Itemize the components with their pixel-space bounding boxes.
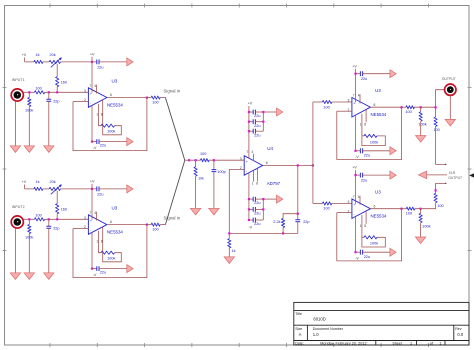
resistor 160 (input stage 2) bbox=[56, 204, 59, 214]
svg-text:-V: -V bbox=[355, 155, 359, 159]
resistor 100k balance (input stage 1) bbox=[101, 124, 115, 127]
op-amp U3 NE5534 bbox=[352, 199, 371, 219]
svg-text:22u: 22u bbox=[97, 192, 103, 196]
capacitor 22u +V row 2 U4 bbox=[249, 121, 253, 123]
wire diagonal from stage 1 to summing node bbox=[165, 98, 184, 161]
node xlr cold branch bbox=[435, 189, 437, 191]
ground 22p (input stage 1) bbox=[44, 146, 54, 153]
ground jack shield (input stage 2) bbox=[10, 273, 20, 280]
wire feedback bottom rail bbox=[229, 232, 297, 234]
pin end XLR hot bbox=[445, 164, 446, 165]
node -V right rail junctions U4 bbox=[262, 198, 264, 200]
wire pin 2 feedback (input stage 2) bbox=[73, 228, 88, 230]
svg-text:XLR: XLR bbox=[449, 171, 456, 175]
svg-text:U3: U3 bbox=[112, 205, 118, 210]
op-amp U3 NE5534 bbox=[352, 98, 371, 118]
off-page connector arrow bbox=[469, 173, 474, 177]
balance pin stubs (input stage 1) bbox=[98, 104, 100, 113]
svg-text:6: 6 bbox=[110, 220, 112, 224]
wire cap to arrow bottom (output stage 1) bbox=[356, 150, 361, 152]
svg-text:6010D: 6010D bbox=[313, 317, 325, 322]
svg-text:7: 7 bbox=[89, 84, 91, 88]
wire +V to R 1k (input stage 2) bbox=[25, 188, 34, 190]
resistor 100k balance (output stage 2) bbox=[364, 236, 377, 239]
capacitor 22u bottom (output stage 2) bbox=[360, 250, 362, 255]
svg-text:22u: 22u bbox=[254, 222, 260, 226]
svg-text:+V: +V bbox=[22, 180, 27, 184]
node 10k tap bbox=[195, 159, 197, 161]
node feedback RC top bbox=[297, 213, 299, 215]
wire +V right rail U4 bbox=[262, 112, 264, 131]
wire 160 to input node (input stage 2) bbox=[56, 214, 58, 220]
svg-text:22u: 22u bbox=[364, 255, 370, 259]
wire jack to 100k node (input stage 1) bbox=[23, 91, 35, 93]
wire op-amp output (output stage 2) bbox=[370, 208, 401, 210]
pin 7 wire to +V (input stage 1) bbox=[91, 62, 93, 93]
node jack branch bbox=[435, 106, 437, 108]
svg-text:22u: 22u bbox=[100, 271, 106, 275]
svg-text:Document Number: Document Number bbox=[313, 327, 344, 331]
node output junction (output stage 2) bbox=[400, 208, 402, 210]
node +V cap row 2 U4 bbox=[248, 121, 250, 123]
power port arrow top (output stage 1) bbox=[390, 70, 396, 78]
wire op-amp output (output stage 1) bbox=[370, 106, 401, 108]
wire summing node row bbox=[185, 159, 201, 161]
resistor 100 xlr series top bbox=[435, 107, 437, 117]
wire feedback loop (input stage 2) bbox=[73, 225, 147, 278]
power port arrow bottom (output stage 1) bbox=[390, 147, 396, 155]
svg-text:3: 3 bbox=[84, 216, 86, 220]
resistor 100k load bottom bbox=[420, 209, 422, 214]
wire output to diagonal (input stage 2) bbox=[160, 224, 165, 226]
port XLR OUTPUT arrow bbox=[418, 171, 426, 179]
svg-text:100: 100 bbox=[406, 211, 412, 215]
resistor 100 input (output stage 1) bbox=[322, 100, 332, 103]
wire 100 to op-amp pin 3 (input stage 2) bbox=[45, 218, 89, 220]
svg-text:10k: 10k bbox=[198, 176, 204, 180]
svg-text:4: 4 bbox=[94, 211, 96, 215]
balance pin stubs (output stage 1) bbox=[361, 114, 363, 123]
capacitor 22u supply decoupling bottom (input stage 2) bbox=[97, 266, 99, 271]
balance pin stubs (input stage 2) bbox=[98, 231, 100, 240]
resistor 100k load top bbox=[420, 107, 422, 112]
wire cap to power arrow (input stage 1) bbox=[99, 61, 127, 63]
node B junction bbox=[420, 208, 422, 210]
wire cap to power arrow bottom (input stage 2) bbox=[99, 268, 127, 270]
node RC bottom bbox=[282, 232, 284, 234]
wire 100p to ground bbox=[213, 172, 215, 209]
svg-text:100: 100 bbox=[152, 100, 158, 104]
pin stub top (input stage 2) bbox=[96, 212, 98, 221]
svg-text:1k: 1k bbox=[232, 249, 236, 253]
svg-text:+V: +V bbox=[352, 64, 357, 68]
svg-text:3: 3 bbox=[240, 157, 242, 161]
wire xlr resistor to node B bbox=[415, 203, 436, 209]
svg-text:20k: 20k bbox=[50, 180, 56, 184]
svg-text:Size: Size bbox=[295, 327, 302, 331]
svg-text:Signal In: Signal In bbox=[164, 88, 181, 93]
svg-text:22u: 22u bbox=[254, 133, 260, 137]
wire 1k to pot (input stage 1) bbox=[43, 61, 49, 63]
node A junction bbox=[420, 106, 422, 108]
svg-text:100: 100 bbox=[437, 204, 443, 208]
svg-text:100: 100 bbox=[323, 207, 329, 211]
power port arrow top (input stage 2) bbox=[127, 185, 133, 193]
capacitor 22u +V row 3 U4 bbox=[249, 130, 253, 132]
node gain resistor junction bbox=[228, 232, 230, 234]
node U4 output to bus bbox=[312, 164, 314, 166]
resistor 100 output bottom bbox=[402, 208, 407, 210]
node U4 feedback tap bbox=[297, 164, 299, 166]
svg-text:100: 100 bbox=[35, 213, 41, 217]
node 22p junction (input stage 1) bbox=[48, 91, 50, 93]
ground jack shield (input stage 1) bbox=[10, 146, 20, 153]
resistor 100k input termination (input stage 1) bbox=[28, 92, 30, 97]
pin end XLR cold bbox=[445, 183, 446, 184]
svg-text:100: 100 bbox=[323, 105, 329, 109]
node V+ junction (input stage 2) bbox=[91, 188, 93, 190]
wire diagonal from stage 2 to summing node bbox=[165, 160, 184, 224]
svg-text:U3: U3 bbox=[112, 78, 118, 83]
wire pot wiper down (input stage 1) bbox=[56, 64, 58, 77]
svg-text:3: 3 bbox=[348, 200, 350, 204]
pin stub top (input stage 1) bbox=[96, 85, 98, 94]
svg-text:4: 4 bbox=[252, 150, 254, 154]
resistor 1k (input stage 2) bbox=[34, 187, 43, 190]
wire pot to +V junction (input stage 2) bbox=[61, 188, 97, 190]
op-amp U3 NE5534 bbox=[88, 88, 107, 108]
power port arrow top (output stage 2) bbox=[390, 171, 396, 179]
capacitor 22p (input stage 2) bbox=[48, 219, 50, 226]
svg-text:100k: 100k bbox=[370, 140, 378, 144]
svg-text:22u: 22u bbox=[100, 144, 106, 148]
pin stub top (output stage 2) bbox=[359, 196, 361, 205]
svg-text:100k: 100k bbox=[418, 122, 426, 126]
pin 4 wire (output stage 2) bbox=[355, 217, 357, 253]
capacitor 22u +V row 1 U4 bbox=[249, 111, 253, 113]
svg-text:100: 100 bbox=[433, 128, 439, 132]
svg-text:-V: -V bbox=[93, 146, 97, 150]
svg-text:+: + bbox=[90, 92, 92, 96]
node jack-output junction (input stage 1) bbox=[28, 91, 30, 93]
wire 22p to ground (input stage 1) bbox=[48, 101, 50, 145]
power port arrow +V U4 bbox=[277, 108, 283, 116]
svg-text:7: 7 bbox=[353, 195, 355, 199]
svg-text:22u: 22u bbox=[254, 212, 260, 216]
wire 100 to U4 pin 3 bbox=[209, 159, 244, 161]
ground 1k bbox=[224, 257, 234, 264]
svg-text:NE5534: NE5534 bbox=[371, 112, 387, 117]
svg-text:22p: 22p bbox=[303, 220, 309, 224]
capacitor 22u supply decoupling top (input stage 2) bbox=[97, 187, 99, 192]
svg-text:8: 8 bbox=[256, 182, 258, 186]
svg-text:22p: 22p bbox=[53, 99, 59, 103]
svg-text:Title: Title bbox=[295, 312, 302, 316]
wire 22p to ground (input stage 2) bbox=[48, 228, 50, 272]
wire cap to power arrow bottom (input stage 1) bbox=[99, 141, 127, 143]
svg-text:100k: 100k bbox=[107, 130, 115, 134]
wire feedback loop (output stage 1) bbox=[337, 107, 402, 159]
wire feedback to U4 pin 2 bbox=[229, 169, 244, 233]
wire 2.2k to bottom rail bbox=[282, 228, 284, 234]
svg-text:22u: 22u bbox=[364, 154, 370, 158]
ground 22p (input stage 2) bbox=[44, 273, 54, 280]
capacitor 22u -V row 2 U4 bbox=[249, 208, 253, 210]
node summing junction bbox=[188, 159, 190, 161]
wire cap to arrow top (output stage 1) bbox=[356, 73, 361, 75]
resistor 100k balance (output stage 1) bbox=[364, 134, 377, 137]
title block frame bbox=[294, 302, 469, 345]
svg-text:A: A bbox=[299, 332, 302, 337]
wire RC top rail bbox=[283, 214, 298, 219]
power port arrow top (input stage 1) bbox=[127, 58, 133, 66]
resistor 160 (input stage 1) bbox=[56, 77, 59, 87]
wire to pin 3 (output stage 1) bbox=[332, 101, 352, 103]
svg-text:+: + bbox=[90, 219, 92, 223]
svg-text:20k: 20k bbox=[50, 53, 56, 57]
svg-text:NE5534: NE5534 bbox=[107, 229, 123, 234]
wire pin 2 feedback (input stage 1) bbox=[73, 101, 88, 103]
svg-text:Rev: Rev bbox=[455, 327, 462, 331]
wire cap to arrow bottom (output stage 2) bbox=[356, 251, 361, 253]
node +V right rail junctions U4 bbox=[262, 111, 264, 113]
ground 100k (input stage 1) bbox=[24, 146, 34, 153]
pin 7 wire (output stage 2) bbox=[355, 175, 357, 204]
svg-text:+V: +V bbox=[90, 52, 95, 56]
wire -V rail (input stage 2) bbox=[92, 268, 97, 270]
wire -V row to arrow U4 bbox=[263, 198, 276, 200]
wire 10k to ground bbox=[195, 176, 197, 208]
wire balance loop (output stage 1) bbox=[362, 122, 364, 136]
svg-text:0.0: 0.0 bbox=[457, 332, 463, 337]
pin 4 wire to -V (input stage 1) bbox=[91, 106, 93, 142]
node 160 junction (input stage 2) bbox=[56, 218, 58, 220]
resistor 100 series input (input stage 1) bbox=[34, 91, 44, 94]
wire jack to 100k node (input stage 2) bbox=[23, 218, 35, 220]
pin stub top (output stage 1) bbox=[359, 94, 361, 103]
svg-text:22p: 22p bbox=[53, 226, 59, 230]
svg-text:Date:: Date: bbox=[295, 342, 304, 346]
svg-text:+V: +V bbox=[22, 53, 27, 57]
wire U4 feedback down bbox=[297, 165, 299, 213]
node V+ junction (input stage 1) bbox=[91, 61, 93, 63]
node output junction (output stage 1) bbox=[400, 106, 402, 108]
svg-text:7: 7 bbox=[353, 94, 355, 98]
svg-text:100k: 100k bbox=[422, 225, 430, 229]
node 160 junction (input stage 1) bbox=[56, 91, 58, 93]
svg-text:3: 3 bbox=[84, 89, 86, 93]
wire 100k to ground bottom bbox=[420, 223, 422, 237]
wire 100k to ground top bbox=[420, 121, 422, 135]
node -V junction (output stage 2) bbox=[354, 251, 356, 253]
svg-text:+V: +V bbox=[90, 179, 95, 183]
svg-text:22u: 22u bbox=[254, 124, 260, 128]
wire balance loop (input stage 2) bbox=[99, 240, 102, 253]
power port arrow bottom (input stage 1) bbox=[127, 138, 133, 146]
resistor 100 output (input stage 2) bbox=[147, 224, 151, 226]
capacitor 22u supply decoupling bottom (input stage 1) bbox=[97, 139, 99, 144]
border zone tick marks bbox=[49, 4, 51, 8]
wire bus to output stages bbox=[312, 102, 314, 203]
ground 100p bbox=[209, 208, 219, 215]
svg-text:+V: +V bbox=[248, 102, 253, 106]
node -V junction (input stage 2) bbox=[91, 268, 93, 270]
capacitor 22u top (output stage 1) bbox=[360, 71, 362, 76]
wire balance loop (output stage 2) bbox=[362, 224, 364, 238]
capacitor 22p feedback bbox=[297, 214, 299, 220]
svg-text:U4: U4 bbox=[267, 146, 273, 151]
resistor 100 input (output stage 2) bbox=[322, 202, 332, 205]
node 22p junction (input stage 2) bbox=[48, 218, 50, 220]
capacitor 22u supply decoupling top (input stage 1) bbox=[97, 60, 99, 65]
svg-text:4: 4 bbox=[358, 94, 360, 98]
wire jack ground bbox=[449, 95, 451, 119]
resistor 100k balance (input stage 2) bbox=[101, 251, 115, 254]
pin 7 wire to +V (input stage 2) bbox=[91, 189, 93, 220]
resistor 1k (input stage 1) bbox=[34, 60, 43, 63]
pin stub top U4 bbox=[252, 154, 254, 161]
wire -V left rail U4 bbox=[248, 173, 250, 220]
node output junction (input stage 1) bbox=[146, 97, 148, 99]
resistor 100 summing bbox=[201, 159, 210, 162]
resistor 10k to ground bbox=[195, 160, 197, 167]
svg-text:22u: 22u bbox=[361, 77, 367, 81]
pin 4 wire to -V (input stage 2) bbox=[91, 233, 93, 269]
ground 100k (input stage 2) bbox=[24, 273, 34, 280]
svg-text:22u: 22u bbox=[254, 201, 260, 205]
svg-text:100k: 100k bbox=[107, 257, 115, 261]
svg-text:1.0: 1.0 bbox=[313, 332, 319, 337]
svg-text:1: 1 bbox=[410, 342, 412, 346]
svg-text:1k: 1k bbox=[36, 53, 40, 57]
node output junction (input stage 2) bbox=[146, 224, 148, 226]
wire 1k to ground bbox=[228, 248, 230, 257]
node +V junction (output stage 2) bbox=[354, 174, 356, 176]
svg-text:8: 8 bbox=[364, 224, 366, 228]
svg-text:6: 6 bbox=[110, 93, 112, 97]
ground output jack bbox=[445, 119, 455, 126]
wire -V rail (input stage 1) bbox=[92, 141, 97, 143]
wire bus top corner bbox=[313, 101, 323, 103]
svg-text:6: 6 bbox=[374, 204, 376, 208]
svg-text:-V: -V bbox=[93, 273, 97, 277]
capacitor 22u -V row 3 U4 bbox=[249, 219, 253, 221]
wire feedback loop (input stage 1) bbox=[73, 98, 147, 151]
potentiometer 20k (input stage 1) bbox=[49, 60, 60, 63]
wire to node A bbox=[414, 106, 435, 108]
wire jack shield down (input stage 2) bbox=[14, 228, 16, 272]
pin stubs bottom U4 bbox=[252, 171, 254, 182]
svg-text:100: 100 bbox=[405, 110, 411, 114]
balance pin stubs (output stage 2) bbox=[361, 215, 363, 224]
wire 22p to bottom rail bbox=[297, 222, 299, 233]
svg-text:2.2k: 2.2k bbox=[273, 220, 280, 224]
wire 100 to op-amp pin 3 (input stage 1) bbox=[45, 91, 89, 93]
ground 100k bottom bbox=[415, 237, 425, 244]
resistor 100k input termination (input stage 2) bbox=[28, 219, 30, 224]
svg-text:4: 4 bbox=[358, 195, 360, 199]
wire balance loop (input stage 1) bbox=[99, 113, 102, 126]
node +V cap row 1 U4 bbox=[248, 111, 250, 113]
wire op-amp output (input stage 1) bbox=[107, 97, 147, 99]
wire 100k to ground (input stage 1) bbox=[28, 107, 30, 146]
capacitor 100p bbox=[213, 160, 215, 169]
svg-text:7: 7 bbox=[89, 211, 91, 215]
capacitor 22u -V row 1 U4 bbox=[249, 198, 253, 200]
svg-text:160: 160 bbox=[61, 208, 67, 212]
svg-text:100: 100 bbox=[152, 227, 158, 231]
node +V junction (output stage 1) bbox=[354, 73, 356, 75]
svg-text:OUTPUT: OUTPUT bbox=[448, 176, 462, 180]
capacitor 22u bottom (output stage 1) bbox=[360, 148, 362, 153]
svg-text:+: + bbox=[246, 160, 248, 164]
svg-text:+V: +V bbox=[352, 166, 357, 170]
wire cap to power arrow (input stage 2) bbox=[99, 188, 127, 190]
power port arrow bottom (output stage 2) bbox=[390, 248, 396, 256]
svg-text:6: 6 bbox=[266, 161, 268, 165]
node 100p tap bbox=[213, 159, 215, 161]
node -V cap row 3 U4 bbox=[248, 219, 250, 221]
potentiometer 20k (input stage 2) bbox=[49, 187, 60, 190]
svg-text:INPUT2: INPUT2 bbox=[12, 205, 25, 209]
wire jack shield down (input stage 1) bbox=[14, 101, 16, 146]
svg-text:22u: 22u bbox=[361, 179, 367, 183]
wire pin 2 (output stage 1) bbox=[337, 110, 352, 112]
node -V cap row 2 U4 bbox=[248, 208, 250, 210]
wire 160 to input node (input stage 1) bbox=[56, 87, 58, 93]
resistor 100 xlr series bottom bbox=[435, 190, 437, 193]
svg-text:100p: 100p bbox=[217, 170, 225, 174]
pin 4 wire (output stage 1) bbox=[355, 115, 357, 151]
wire cap to arrow top (output stage 2) bbox=[356, 174, 361, 176]
node -V junction (input stage 1) bbox=[91, 141, 93, 143]
capacitor 22p (input stage 1) bbox=[48, 92, 50, 99]
svg-text:3: 3 bbox=[348, 99, 350, 103]
wire 100k to ground (input stage 2) bbox=[28, 234, 30, 273]
wire pot to +V junction (input stage 1) bbox=[61, 61, 97, 63]
svg-text:NE5534: NE5534 bbox=[107, 102, 123, 107]
svg-text:100: 100 bbox=[200, 152, 206, 156]
wire feedback loop (output stage 2) bbox=[337, 209, 402, 261]
capacitor 22u top (output stage 2) bbox=[360, 173, 362, 178]
resistor 100 output top bbox=[402, 106, 406, 108]
wire XLR port line bbox=[427, 174, 447, 176]
power port arrow -V U4 bbox=[277, 195, 283, 203]
svg-text:1: 1 bbox=[252, 182, 254, 186]
svg-text:100k: 100k bbox=[370, 242, 378, 246]
svg-text:AD797: AD797 bbox=[267, 181, 281, 186]
svg-text:8: 8 bbox=[364, 123, 366, 127]
wire +V to R 1k (input stage 1) bbox=[25, 61, 34, 63]
wire pin 2 (output stage 2) bbox=[337, 212, 352, 214]
svg-text:NE5534: NE5534 bbox=[371, 214, 387, 219]
op-amp U4 AD797 bbox=[244, 156, 263, 176]
op-amp U3 NE5534 bbox=[88, 215, 107, 235]
wire pot wiper down (input stage 2) bbox=[56, 191, 58, 204]
resistor 2.2k feedback bbox=[282, 219, 285, 228]
svg-text:8: 8 bbox=[101, 240, 103, 244]
node -V junction (output stage 1) bbox=[354, 150, 356, 152]
node -V cap row 1 U4 bbox=[248, 198, 250, 200]
svg-text:7: 7 bbox=[247, 150, 249, 154]
connector J1 input jack bbox=[11, 89, 23, 101]
wire to pin 3 (output stage 2) bbox=[332, 202, 352, 204]
svg-text:-V: -V bbox=[355, 256, 359, 260]
wire up to output jack bbox=[436, 90, 445, 108]
svg-text:U3: U3 bbox=[375, 88, 381, 93]
svg-text:100: 100 bbox=[35, 86, 41, 90]
wire +V row to arrow U4 bbox=[263, 111, 276, 113]
